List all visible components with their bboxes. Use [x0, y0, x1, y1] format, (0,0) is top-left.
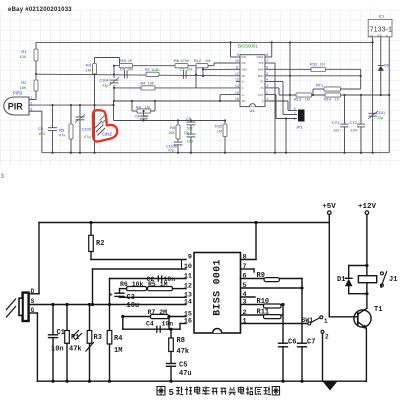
svg-text:1: 1: [266, 97, 268, 101]
svg-text:18K: 18K: [148, 82, 155, 86]
resistor R11: [241, 314, 264, 316]
svg-text:C4: C4: [120, 68, 125, 72]
svg-text:DW: DW: [242, 55, 247, 59]
wire 7133 out pin: [372, 37, 374, 153]
wire pin9 to rail: [231, 56, 237, 58]
IC BISS0001 body: [194, 253, 241, 334]
svg-text:1M: 1M: [114, 347, 122, 355]
svg-text:+12V: +12V: [358, 203, 377, 211]
svg-text:R13: R13: [294, 98, 301, 102]
resistor R14: [325, 93, 341, 97]
svg-text:1M: 1M: [305, 98, 310, 102]
svg-text:T1: T1: [374, 306, 382, 314]
svg-text:8: 8: [266, 53, 268, 57]
svg-text:1M: 1M: [320, 62, 325, 66]
svg-text:G: G: [31, 307, 35, 314]
pin 13 of U4: [236, 81, 240, 83]
svg-text:R6 10k: R6 10k: [120, 281, 144, 288]
svg-text:D1: D1: [337, 276, 345, 284]
capacitor C4: [156, 326, 158, 333]
wire PIR source row to pin14: [29, 304, 186, 306]
svg-text:8: 8: [243, 254, 247, 262]
svg-text:RL2: RL2: [194, 59, 201, 63]
capacitor C6: [278, 342, 288, 344]
pin 6 of U4: [265, 68, 269, 70]
svg-text:16: 16: [184, 318, 192, 326]
wire R9 upper row: [114, 100, 241, 102]
resistor R8 18K: [177, 121, 179, 126]
svg-text:13: 13: [235, 78, 239, 82]
resistor R7: [123, 316, 186, 318]
svg-text:9: 9: [237, 53, 239, 57]
svg-text:VREF: VREF: [256, 55, 264, 59]
svg-text:C6: C6: [288, 339, 296, 347]
wire pin13 row: [120, 296, 187, 298]
resistor R10: [241, 304, 264, 306]
wire pin6 to R33 row: [269, 68, 311, 70]
wire pin11 row: [110, 278, 187, 280]
svg-text:47µ: 47µ: [168, 149, 174, 153]
node R2 rail junction: [89, 221, 92, 224]
pin 8 of U4: [265, 56, 269, 58]
wire SW1 contact2 to ground: [322, 333, 324, 381]
resistor R2: [35, 74, 37, 80]
node R1-R2 junction: [35, 73, 37, 75]
svg-text:10: 10: [184, 263, 192, 271]
svg-text:+5V: +5V: [322, 203, 336, 211]
svg-text:10K: 10K: [19, 54, 26, 59]
wire pin5 row: [241, 287, 303, 289]
red marker circle around Cds2: [93, 110, 117, 141]
svg-text:C4: C4: [146, 321, 154, 328]
infrared ray arrows: [6, 299, 16, 311]
wire R9 lower row: [114, 120, 226, 122]
svg-text:1: 1: [324, 318, 328, 325]
resistor R4: [114, 87, 196, 89]
wire +5V top rail: [39, 222, 329, 224]
svg-text:1K: 1K: [335, 98, 340, 102]
svg-text:R4: R4: [114, 335, 122, 343]
svg-text:A: A: [262, 99, 264, 103]
wire pin1 to switch SW1: [241, 323, 308, 325]
svg-text:PIR: PIR: [8, 102, 24, 112]
wire bottom ground rail: [37, 380, 366, 382]
pin 9 of U4: [236, 56, 240, 58]
resistor R7: [146, 72, 159, 76]
svg-text:RT1: RT1: [316, 83, 323, 87]
capacitor C2: [52, 105, 54, 128]
svg-text:BISS0001: BISS0001: [238, 44, 258, 49]
svg-text:2: 2: [266, 91, 268, 95]
wire top supply rail: [36, 41, 373, 43]
svg-text:6.8K: 6.8K: [152, 68, 160, 72]
node wire junctions middle: [113, 73, 115, 75]
op-amp IC U4 BISS0001 body: [240, 55, 265, 107]
pin 14 of U4: [236, 87, 240, 89]
wire PIR pin1 to R2 bottom: [29, 99, 36, 101]
photoresistor Cds2: [94, 105, 96, 153]
relay coil J1: [358, 276, 376, 283]
svg-text:R11: R11: [257, 309, 270, 317]
svg-text:47k: 47k: [69, 346, 82, 354]
capacitor C7: [297, 342, 307, 344]
svg-text:104: 104: [351, 129, 357, 133]
caption figure title: [157, 387, 165, 396]
wire to IC pin15: [219, 95, 221, 101]
resistor R5: [70, 105, 72, 124]
wire RL2 to IC pins: [202, 67, 204, 76]
resistor R3: [89, 305, 91, 331]
svg-text:1M: 1M: [145, 105, 150, 109]
resistor R5: [148, 287, 173, 291]
wire C4 row: [122, 317, 124, 330]
svg-text:7: 7: [243, 263, 247, 271]
svg-text:C8: C8: [135, 114, 140, 118]
svg-text:47k: 47k: [177, 348, 190, 356]
PIR detector sensor body: [23, 293, 29, 321]
pin 12 of U4: [236, 75, 240, 77]
svg-text:47k: 47k: [59, 133, 65, 138]
svg-text:R4: R4: [141, 82, 146, 86]
svg-text:PIR2: PIR2: [13, 91, 23, 96]
capacitor C5 electrolytic: [170, 352, 172, 364]
svg-text:18K: 18K: [168, 131, 175, 135]
svg-text:BISS 0001: BISS 0001: [212, 259, 223, 316]
resistor R6: [127, 287, 147, 291]
capacitor C1: [52, 305, 54, 335]
svg-text:C102: C102: [82, 127, 92, 132]
svg-text:C5: C5: [179, 362, 187, 370]
relay contact J1: [380, 272, 383, 275]
wire PIR pin2 row: [29, 104, 114, 106]
svg-text:IC1: IC1: [379, 15, 385, 19]
svg-text:JP1: JP1: [296, 125, 304, 130]
svg-text:C101: C101: [376, 111, 385, 115]
pin 5 of U4: [265, 75, 269, 77]
resistor RL2: [196, 64, 208, 68]
svg-text:47u: 47u: [179, 370, 192, 378]
pin 10 of U4: [236, 62, 240, 64]
svg-text:10: 10: [235, 59, 239, 63]
svg-text:C7: C7: [307, 339, 315, 347]
svg-text:2B: 2B: [242, 74, 245, 78]
wire pin12 row: [120, 288, 127, 290]
svg-text:VSS: VSS: [258, 61, 264, 65]
resistor R32: [224, 121, 226, 125]
capacitor C102 electrolytic: [79, 105, 81, 117]
svg-text:OUT: OUT: [258, 93, 264, 97]
svg-text:VDD: VDD: [242, 68, 248, 72]
svg-text:103: 103: [333, 129, 339, 133]
svg-text:2K: 2K: [128, 59, 133, 63]
svg-text:R9: R9: [136, 105, 141, 109]
svg-text:470K: 470K: [181, 59, 190, 63]
svg-text:C3: C3: [180, 68, 185, 72]
svg-text:1M: 1M: [85, 68, 91, 73]
svg-text:5: 5: [266, 72, 268, 76]
wire PIR pin3 to ground: [29, 110, 42, 112]
pin 7 of U4: [265, 62, 269, 64]
svg-text:C104: C104: [99, 79, 108, 83]
capacitor C4: [124, 70, 126, 78]
svg-text:14: 14: [184, 299, 192, 307]
svg-text:2+: 2+: [242, 80, 245, 84]
capacitor C3 electrolytic: [119, 289, 121, 294]
wire pin3 to R13 row: [269, 87, 279, 89]
svg-text:R1: R1: [71, 334, 79, 342]
svg-text:R8: R8: [177, 337, 185, 345]
svg-text:R32: R32: [215, 125, 222, 129]
svg-text:5: 5: [169, 388, 174, 398]
svg-text:R10: R10: [119, 59, 126, 63]
photoresistor R1 47k: [66, 305, 68, 331]
svg-text:R33: R33: [310, 62, 317, 66]
svg-text:14: 14: [235, 84, 239, 88]
ground symbol: [323, 381, 338, 390]
wire base drive from +5V column: [329, 316, 358, 318]
capacitor C104 electrolytic: [113, 66, 115, 78]
svg-text:10u: 10u: [127, 302, 140, 310]
svg-text:R10: R10: [257, 298, 270, 306]
svg-text:1M: 1M: [217, 130, 222, 134]
pin 2 of U4: [265, 94, 269, 96]
svg-text:7: 7: [266, 59, 268, 63]
svg-text:R2: R2: [96, 240, 104, 248]
wire R33 to RT1 column: [360, 69, 362, 89]
wire pin1 to JP1-3: [269, 100, 288, 102]
svg-text:1B: 1B: [242, 99, 245, 103]
svg-text:1+: 1+: [242, 93, 245, 97]
svg-text:D: D: [31, 288, 35, 295]
resistor R6: [175, 64, 188, 68]
resistor RT1: [313, 88, 324, 90]
pin 16 of U4: [236, 100, 240, 102]
wire R7 row: [36, 74, 236, 76]
voltage regulator IC1 7133-1: [368, 19, 392, 36]
svg-text:BHA: BHA: [258, 68, 264, 72]
wire R10-R6 row: [114, 65, 196, 67]
svg-text:R3: R3: [94, 334, 102, 342]
svg-text:R6: R6: [174, 59, 179, 63]
svg-text:C1: C1: [57, 329, 65, 337]
svg-text:6: 6: [243, 273, 247, 281]
wire pin2 to JP1-1: [269, 94, 276, 96]
svg-text:Cds2: Cds2: [102, 132, 112, 137]
svg-text:D6: D6: [384, 64, 389, 68]
capacitor C2 on pin11 row: [157, 275, 159, 281]
svg-text:7133-1: 7133-1: [370, 25, 392, 34]
pin ladder separators: [181, 260, 183, 270]
wire pin5 riser: [269, 75, 361, 77]
svg-text:22µ: 22µ: [377, 116, 384, 120]
diode D6: [380, 37, 382, 66]
resistor R3: [94, 58, 96, 64]
svg-text:11: 11: [235, 66, 239, 70]
svg-text:10n: 10n: [51, 346, 64, 354]
svg-text:6: 6: [266, 66, 268, 70]
capacitor CY1: [344, 95, 346, 124]
wire pin4 stub: [241, 296, 256, 298]
transistor T1: [354, 310, 371, 327]
svg-text:10n: 10n: [162, 321, 174, 328]
wire pin8 to rail: [269, 56, 272, 58]
wire R3 top row: [95, 57, 120, 59]
capacitor C103a electrolytic: [174, 141, 183, 143]
svg-text:18K: 18K: [19, 85, 26, 90]
svg-text:R14: R14: [324, 98, 331, 102]
pin 4 of U4: [265, 81, 269, 83]
svg-text:S: S: [31, 298, 35, 305]
svg-text:103: 103: [38, 131, 45, 136]
wire bottom ground rail: [42, 152, 389, 154]
svg-text:R7 2M: R7 2M: [148, 309, 168, 316]
svg-text:CY2: CY2: [350, 121, 357, 125]
wire R10 column down through C6: [282, 305, 284, 344]
wire pin4 to JP1-2: [269, 81, 283, 83]
svg-text:1: 1: [294, 117, 296, 121]
svg-text:2-: 2-: [242, 86, 244, 90]
svg-text:3: 3: [294, 107, 296, 111]
wire pin8 to +5V rail: [241, 259, 257, 261]
resistor R2: [90, 223, 92, 236]
svg-text:+: +: [109, 292, 113, 299]
svg-text:1M: 1M: [205, 59, 210, 63]
svg-text:R9: R9: [257, 272, 265, 280]
resistor R8: [170, 329, 172, 338]
svg-text:C6: C6: [184, 131, 189, 135]
svg-text:12: 12: [184, 283, 192, 291]
relay block bottom wire: [349, 293, 367, 295]
svg-text:22µ: 22µ: [102, 84, 109, 88]
wire pin9 row: [91, 259, 186, 261]
diode D1: [348, 266, 350, 279]
capacitor C6a: [190, 125, 192, 134]
wire 7133 in pin down right side: [388, 37, 390, 153]
wire pin7 stub: [241, 268, 255, 270]
wire R13-R14 row: [279, 94, 389, 96]
wire pin16 row: [179, 324, 181, 330]
svg-text:11: 11: [184, 273, 192, 281]
svg-text:GND: GND: [377, 34, 383, 37]
wire R9 column down through C7: [301, 279, 303, 344]
capacitor C9: [190, 120, 192, 123]
wire collector to relay: [366, 294, 368, 309]
svg-text:16: 16: [235, 97, 239, 101]
wire pin10 row: [93, 268, 187, 270]
svg-text:CY1: CY1: [332, 121, 339, 125]
svg-text:J1: J1: [389, 276, 397, 284]
svg-text:R7: R7: [145, 68, 150, 72]
svg-text:TC: TC: [260, 80, 264, 84]
svg-text:TA: TA: [260, 86, 263, 90]
wire pin7 VSS to ground rail: [269, 62, 275, 64]
svg-text:103: 103: [142, 114, 148, 118]
svg-text:2: 2: [325, 334, 329, 341]
resistor R13: [296, 93, 312, 97]
wire emitter to ground: [365, 328, 367, 381]
pin 1 of U4: [265, 100, 269, 102]
resistor R33: [311, 67, 326, 71]
svg-text:47µ: 47µ: [84, 134, 91, 139]
resistor R4: [109, 305, 111, 331]
pin 3 of U4: [265, 87, 269, 89]
connector JP1: [298, 110, 305, 122]
svg-text:R8: R8: [170, 126, 175, 130]
grid background of upper schematic: [0, 10, 400, 166]
pin 15 of U4: [236, 94, 240, 96]
svg-text:MS: MS: [242, 61, 246, 65]
svg-text:1: 1: [243, 318, 247, 326]
svg-text:U4: U4: [250, 108, 256, 113]
svg-text:12: 12: [235, 72, 239, 76]
svg-text:4: 4: [266, 78, 268, 82]
svg-text:103: 103: [187, 140, 193, 144]
wire PIR gate to ground: [29, 312, 38, 314]
svg-text:eBay #021200201033: eBay #021200201033: [8, 7, 72, 13]
svg-text:9: 9: [188, 254, 192, 262]
capacitor CY2: [360, 95, 362, 124]
pin 11 of U4: [236, 68, 240, 70]
resistor R10: [120, 64, 133, 68]
PIR sensor PIR2: [4, 97, 29, 115]
resistor R9: [131, 101, 133, 111]
resistor R1: [35, 42, 37, 49]
svg-text:15: 15: [235, 91, 239, 95]
capacitor C3: [183, 71, 185, 79]
svg-text:5: 5: [243, 282, 247, 290]
svg-text:104: 104: [127, 68, 133, 72]
svg-text:2: 2: [243, 309, 247, 317]
wire left rail down to PIR drain: [38, 223, 40, 294]
relay circuit top wire: [349, 265, 367, 267]
svg-text:R5 1M: R5 1M: [148, 281, 168, 288]
svg-text:3: 3: [266, 84, 268, 88]
node rail junctions: [229, 41, 231, 43]
svg-text:BHC: BHC: [258, 74, 264, 78]
resistor R9: [241, 278, 265, 280]
svg-text:3: 3: [243, 299, 247, 307]
capacitor C8: [143, 111, 145, 116]
capacitor C101 electrolytic: [368, 112, 376, 114]
svg-text:2: 2: [294, 112, 296, 116]
svg-text:103: 103: [186, 68, 192, 72]
